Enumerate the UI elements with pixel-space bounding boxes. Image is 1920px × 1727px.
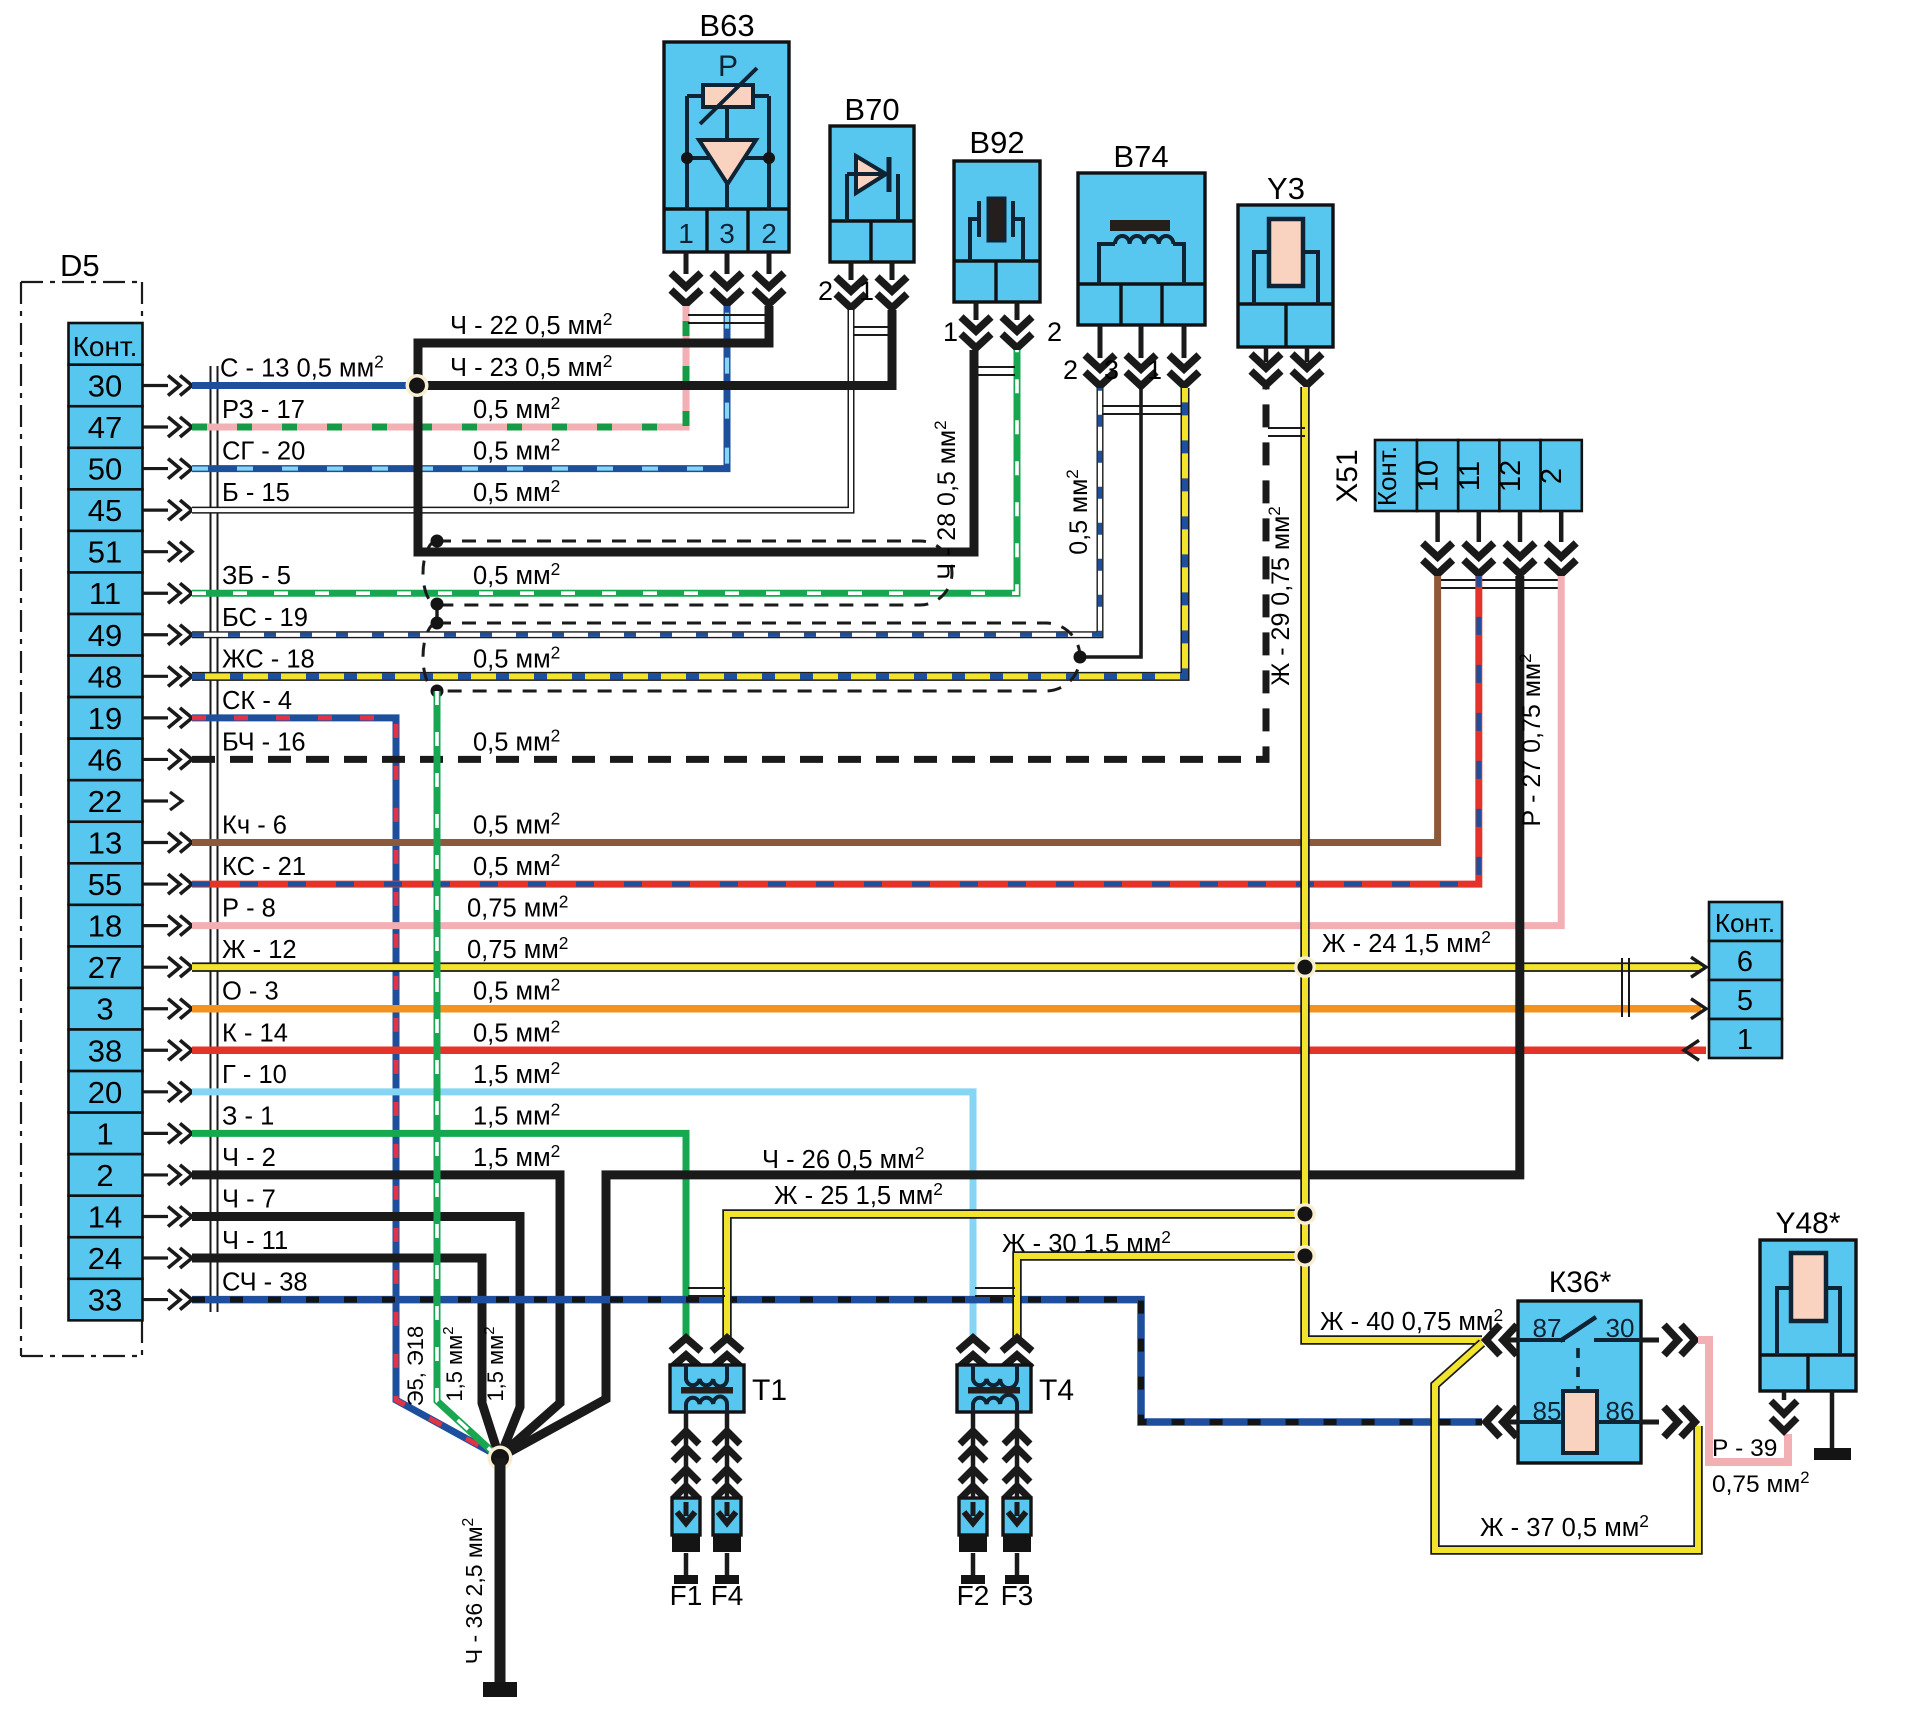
svg-text:5: 5 [1737, 985, 1753, 1017]
relay K36 box [1518, 1301, 1641, 1463]
svg-text:38: 38 [88, 1033, 122, 1068]
svg-text:P: P [718, 50, 738, 83]
svg-text:0,5 мм2: 0,5 мм2 [473, 975, 560, 1006]
spark plug F3 [1015, 1412, 1020, 1498]
svg-text:3: 3 [1104, 355, 1119, 385]
svg-text:Ж - 25 1,5 мм2: Ж - 25 1,5 мм2 [774, 1179, 943, 1210]
svg-text:СЧ - 38: СЧ - 38 [222, 1269, 308, 1297]
svg-text:Ч - 7: Ч - 7 [222, 1185, 276, 1213]
svg-text:Г - 10: Г - 10 [222, 1061, 287, 1089]
svg-text:50: 50 [88, 452, 122, 487]
B63 pin 3 terminal arrow [725, 252, 730, 274]
D5 pin 1 arrow [143, 1132, 168, 1135]
B92 pin 2 terminal arrow [1015, 302, 1020, 320]
connector D5 contact table [69, 323, 143, 1320]
label Ч-28 vertical [931, 420, 961, 579]
svg-text:55: 55 [88, 867, 122, 902]
D5 pin 46 arrow [143, 758, 168, 761]
svg-text:F3: F3 [1001, 1580, 1034, 1611]
crossing tick below B63 [688, 314, 766, 316]
B92 internal symbol: piezo element [988, 198, 1005, 241]
spark plug F4 [725, 1412, 730, 1498]
D5 pin 13 arrow [143, 841, 168, 844]
svg-text:B92: B92 [969, 125, 1024, 160]
svg-text:1: 1 [859, 276, 874, 306]
svg-text:0,5 мм2: 0,5 мм2 [473, 559, 560, 590]
valve Y48 box [1760, 1240, 1856, 1391]
svg-text:0,75 мм2: 0,75 мм2 [467, 892, 568, 923]
svg-text:0,5 мм2: 0,5 мм2 [473, 1016, 560, 1047]
sensor B63 box [664, 42, 789, 252]
junction node С-13/Ч-23/Ч-22 [406, 374, 429, 397]
wire СЧ-38 D5 pin 33 to relay K36 pin 85 [192, 1300, 1482, 1422]
svg-text:B74: B74 [1113, 139, 1168, 174]
wire СК-4 D5 pin 19 down to ground node [192, 718, 498, 1456]
svg-text:49: 49 [88, 618, 122, 653]
svg-text:Ч - 26 0,5 мм2: Ч - 26 0,5 мм2 [762, 1143, 924, 1174]
svg-text:45: 45 [88, 493, 122, 528]
svg-text:Б - 15: Б - 15 [222, 479, 290, 507]
T4 input arrows [958, 1338, 988, 1368]
funnel labels [403, 1326, 428, 1407]
svg-text:D5: D5 [60, 248, 100, 283]
svg-text:0,5 мм2: 0,5 мм2 [473, 393, 560, 424]
D5 pin 14 arrow [143, 1215, 168, 1218]
svg-text:СГ - 20: СГ - 20 [222, 438, 305, 466]
svg-text:0,5 мм2: 0,5 мм2 [473, 725, 560, 756]
svg-text:1: 1 [96, 1116, 113, 1151]
wire Ж-29 Y3 pin 2 down / Ж-40 to relay K36 pin 87 [1305, 387, 1482, 1340]
Y48 internal symbol: solenoid with core [1777, 1288, 1791, 1355]
svg-text:1,5 мм2: 1,5 мм2 [473, 1141, 560, 1172]
wire СГ-20 D5 pin 50 to B63 pin 3 [192, 306, 727, 469]
shield of wire ЗБ-5 (dashed loop) [437, 541, 952, 605]
wire Ч-36 to ground [495, 1458, 506, 1682]
svg-text:6: 6 [1737, 946, 1753, 978]
svg-text:Ж - 29 0,75 мм2: Ж - 29 0,75 мм2 [1265, 506, 1295, 686]
crossing tick above T1 [688, 1287, 725, 1289]
svg-text:Конт.: Конт. [1715, 908, 1775, 938]
wire БЧ-16 D5 pin 46 to Y3 pin 1 [192, 387, 1266, 759]
ECU connector D5 dash-dot outline [21, 281, 143, 283]
svg-text:2: 2 [761, 218, 777, 249]
svg-text:0,5 мм2: 0,5 мм2 [473, 435, 560, 466]
svg-text:Ж - 24 1,5 мм2: Ж - 24 1,5 мм2 [1322, 927, 1491, 958]
K36 switch contact [1518, 1338, 1565, 1342]
D5 pin 51 arrow [143, 550, 168, 553]
svg-text:1: 1 [1147, 355, 1162, 385]
svg-text:48: 48 [88, 659, 122, 694]
connector X51 table [1375, 440, 1582, 511]
crossing tick below B70 [853, 326, 890, 328]
svg-text:Ч - 23 0,5 мм2: Ч - 23 0,5 мм2 [450, 351, 612, 382]
svg-text:Ч - 22 0,5 мм2: Ч - 22 0,5 мм2 [450, 309, 612, 340]
D5 pin 2 arrow [143, 1173, 168, 1176]
svg-text:Ж - 37 0,5 мм2: Ж - 37 0,5 мм2 [1480, 1511, 1649, 1542]
B70 pin 2 terminal arrow [849, 262, 854, 280]
svg-text:2: 2 [1063, 355, 1078, 385]
svg-text:0,5 мм2: 0,5 мм2 [473, 850, 560, 881]
shield link node [435, 604, 438, 623]
svg-text:T1: T1 [752, 1374, 787, 1407]
svg-text:1,5 мм2: 1,5 мм2 [473, 1099, 560, 1130]
svg-text:B70: B70 [844, 92, 899, 127]
wire B74 pin 3 to shield [1083, 388, 1141, 657]
svg-text:К36*: К36* [1549, 1266, 1612, 1299]
D5 pin 20 arrow [143, 1090, 168, 1093]
Y3 internal symbol: solenoid with core [1254, 252, 1269, 304]
svg-text:14: 14 [88, 1199, 122, 1234]
label Р-27 vertical [1516, 653, 1546, 826]
svg-text:12: 12 [1495, 460, 1527, 492]
wire Ж-37 relay K36 pin 87 to pin 86 [1435, 1343, 1698, 1550]
Y48 pin 1 arrow [1782, 1391, 1787, 1400]
svg-text:БЧ - 16: БЧ - 16 [222, 728, 306, 756]
D5 pin 22 arrow [143, 799, 168, 802]
crossing tick below Y3 [1268, 427, 1305, 429]
wire Ж-25 T1 pin 2 to junction [727, 1214, 1305, 1337]
svg-text:27: 27 [88, 950, 122, 985]
svg-text:30: 30 [88, 368, 122, 403]
D5 pin 3 arrow [143, 1007, 168, 1010]
svg-text:К - 14: К - 14 [222, 1019, 288, 1047]
svg-text:Р - 8: Р - 8 [222, 895, 276, 923]
D5 pin 19 arrow [143, 716, 168, 719]
D5 pin 47 arrow [143, 425, 168, 428]
svg-text:2: 2 [96, 1158, 113, 1193]
B74 pin 1 terminal arrow [1182, 325, 1187, 358]
svg-text:1,5 мм2: 1,5 мм2 [473, 1058, 560, 1089]
svg-text:F1: F1 [670, 1580, 703, 1611]
svg-text:0,75 мм2: 0,75 мм2 [1712, 1468, 1809, 1498]
svg-text:0,5 мм2: 0,5 мм2 [473, 642, 560, 673]
svg-text:X51: X51 [1331, 449, 1364, 502]
ignition coil T4 [957, 1365, 1031, 1412]
svg-text:Ж - 12: Ж - 12 [222, 936, 297, 964]
D5 pin 11 arrow [143, 592, 168, 595]
svg-text:Ч - 28 0,5 мм2: Ч - 28 0,5 мм2 [931, 420, 961, 579]
B63 pin 1 terminal arrow [684, 252, 689, 274]
wire Р-8 / Р-27 D5 pin 18 to X51 pin 2 [192, 576, 1561, 926]
svg-text:Кч - 6: Кч - 6 [222, 812, 287, 840]
Y3 pin terminal arrows [1264, 347, 1269, 362]
K36 pin 30 arrow [1641, 1338, 1659, 1343]
D5 pin 38 arrow [143, 1049, 168, 1052]
D5 pin 48 arrow [143, 675, 168, 678]
svg-text:10: 10 [1413, 460, 1445, 492]
B63 pin 2 terminal arrow [767, 252, 772, 274]
svg-text:ЖС - 18: ЖС - 18 [222, 645, 315, 673]
label Ч-36 vertical [460, 1518, 487, 1664]
T1 input arrows [671, 1338, 701, 1368]
svg-text:11: 11 [89, 576, 121, 611]
svg-text:T4: T4 [1039, 1374, 1074, 1407]
K36 dashed actuator link [1576, 1348, 1580, 1391]
svg-text:3: 3 [96, 992, 113, 1027]
svg-text:2: 2 [1047, 317, 1062, 347]
svg-text:13: 13 [88, 826, 122, 861]
svg-text:Конт.: Конт. [73, 331, 138, 362]
svg-text:Э5, Э18: Э5, Э18 [403, 1326, 428, 1407]
D5 pin 50 arrow [143, 467, 168, 470]
wire Ч-26 ground node to X51 pin 12 [504, 576, 1520, 1455]
svg-text:Ч - 2: Ч - 2 [222, 1144, 276, 1172]
wire Ч-7 D5 pin 14 to ground node [192, 1216, 520, 1457]
svg-text:18: 18 [88, 909, 122, 944]
ground node star point [488, 1446, 513, 1471]
wire С-13 from D5 pin 30 [192, 382, 410, 389]
wire Б-15 D5 pin 45 to B70 pin 2 [192, 310, 851, 510]
svg-text:0,5 мм2: 0,5 мм2 [1063, 469, 1093, 555]
wire Ж-12 / Ж-24 D5 pin 27 to right connector pin 6 [192, 962, 1701, 972]
wire З-1 D5 pin 1 to T1 pin 1 [192, 1133, 686, 1337]
svg-text:Р - 39: Р - 39 [1712, 1435, 1777, 1462]
crossing tick below X51 [1439, 579, 1559, 581]
svg-text:Ч - 36 2,5 мм2: Ч - 36 2,5 мм2 [460, 1518, 487, 1664]
wire БС-19 D5 pin 49 to B74 pin 2 [192, 388, 1100, 635]
svg-text:B63: B63 [699, 8, 754, 43]
D5 pin 30 arrow [143, 384, 168, 387]
crossing tick above T4 [975, 1287, 1015, 1289]
B92 pin 1 terminal arrow [974, 302, 979, 320]
svg-text:Y48*: Y48* [1775, 1207, 1840, 1240]
B70 pin 1 terminal arrow [890, 262, 895, 280]
wire Ж-30 T4 pin 2 to junction [1017, 1256, 1305, 1337]
svg-text:1,5 мм2: 1,5 мм2 [440, 1326, 467, 1401]
D5 pin 24 arrow [143, 1256, 168, 1259]
B70 internal symbol: diode [856, 156, 886, 193]
K36 pin 85 arrow [1500, 1420, 1518, 1425]
crossing tick below B74 [1102, 405, 1182, 407]
D5 pin 55 arrow [143, 882, 168, 885]
svg-text:1: 1 [1737, 1024, 1753, 1056]
wire КС-21 D5 pin 55 to X51 pin 11 [192, 576, 1479, 884]
svg-text:1: 1 [678, 218, 694, 249]
svg-text:0,5 мм2: 0,5 мм2 [473, 476, 560, 507]
svg-text:СК - 4: СК - 4 [222, 687, 292, 715]
X51 pin stubs and arrows [1435, 511, 1440, 542]
svg-text:19: 19 [88, 701, 122, 736]
spark plug F2 [971, 1412, 976, 1498]
valve Y3 box [1238, 205, 1333, 347]
svg-text:З - 1: З - 1 [222, 1102, 274, 1130]
B74 internal symbol: inductive sensor with core [1110, 220, 1170, 231]
wire ЖС-18 D5 pin 48 to B74 pin 1 [192, 388, 1185, 676]
wire Ч-23 junction to B70 pin 1 [424, 310, 892, 385]
shield drain wire Э5, Э18 to ground node [437, 691, 497, 1456]
shield of wires БС-19 and ЖС-18 (dashed loop) [437, 623, 1080, 691]
D5 pin 33 arrow [143, 1298, 168, 1301]
K36 pin 86 arrow [1641, 1420, 1659, 1425]
sensor B74 box [1078, 173, 1205, 325]
wire Г-10 D5 pin 20 to T4 pin 1 [192, 1092, 973, 1337]
svg-text:46: 46 [88, 742, 122, 777]
harness crossing tick near D5 [210, 366, 212, 1312]
D5 pin 27 arrow [143, 966, 168, 969]
svg-text:3: 3 [719, 218, 735, 249]
crossing tick below B92 [978, 366, 1015, 368]
wire Р-39 relay K36 pin 30 to Y48 [1698, 1340, 1788, 1462]
K36 coil [1563, 1391, 1597, 1453]
svg-text:2: 2 [818, 276, 833, 306]
label 0,5 mm2 vertical near B74 [1063, 469, 1093, 555]
svg-text:0,75 мм2: 0,75 мм2 [467, 933, 568, 964]
svg-text:С - 13 0,5 мм2: С - 13 0,5 мм2 [220, 351, 384, 382]
svg-text:20: 20 [88, 1075, 122, 1110]
svg-text:2: 2 [1536, 468, 1568, 484]
D5 pin 45 arrow [143, 509, 168, 512]
svg-text:РЗ - 17: РЗ - 17 [222, 396, 305, 424]
svg-text:О - 3: О - 3 [222, 978, 279, 1006]
wire Ч-11 D5 pin 24 to ground node [192, 1258, 499, 1456]
svg-text:Y3: Y3 [1267, 171, 1305, 206]
junction dots on yellow riser [1294, 956, 1316, 978]
svg-text:БС - 19: БС - 19 [222, 604, 308, 632]
wire О-3 D5 pin 3 to right connector pin 5 [192, 1005, 1701, 1013]
wire Кч-6 D5 pin 13 to X51 pin 10 [192, 576, 1438, 843]
svg-text:Конт.: Конт. [1372, 446, 1402, 506]
ignition coil T1 [670, 1365, 744, 1412]
wire Ч-2 D5 pin 2 to ground node [192, 1175, 560, 1456]
svg-text:1: 1 [943, 317, 958, 347]
svg-text:Ч - 11: Ч - 11 [222, 1227, 288, 1255]
wire Ч-22 B63 pin 2 to bus [418, 306, 974, 552]
spark plug F1 [684, 1412, 689, 1498]
svg-text:ЗБ - 5: ЗБ - 5 [222, 562, 291, 590]
svg-text:Ж - 40 0,75 мм2: Ж - 40 0,75 мм2 [1320, 1305, 1503, 1336]
D5 pin 18 arrow [143, 924, 168, 927]
svg-text:33: 33 [88, 1283, 122, 1318]
B74 pin 2 terminal arrow [1098, 325, 1103, 358]
wire РЗ-17 D5 pin 47 to B63 pin 1 [192, 306, 686, 427]
svg-text:51: 51 [88, 535, 122, 570]
Y48 pin 2 to ground [1830, 1391, 1835, 1448]
svg-text:24: 24 [88, 1241, 122, 1276]
B74 pin 3 terminal arrow [1139, 325, 1144, 358]
svg-text:47: 47 [88, 410, 122, 445]
svg-text:F2: F2 [957, 1580, 990, 1611]
right connector table [1709, 902, 1782, 1058]
svg-text:1,5 мм2: 1,5 мм2 [481, 1326, 508, 1401]
D5 pin 49 arrow [143, 633, 168, 636]
X51 cell labels [1372, 446, 1402, 506]
svg-text:11: 11 [1454, 461, 1486, 491]
svg-text:Р - 27 0,75 мм2: Р - 27 0,75 мм2 [1516, 653, 1546, 826]
wire ЗБ-5 D5 pin 11 to B92 pin 2 [192, 350, 1017, 593]
crossing tick right connector [1621, 958, 1623, 1017]
svg-text:22: 22 [88, 784, 122, 819]
label X51 [1331, 449, 1364, 502]
svg-text:КС - 21: КС - 21 [222, 853, 306, 881]
sensor B92 box [954, 161, 1040, 302]
svg-text:F4: F4 [711, 1580, 744, 1611]
label Ж-29 vertical [1265, 506, 1295, 686]
sensor B70 box [830, 126, 914, 262]
wire К-14 D5 pin 38 to right connector pin 1 [192, 1047, 1706, 1055]
K36 pin 87 arrow [1500, 1338, 1518, 1343]
svg-text:0,5 мм2: 0,5 мм2 [473, 809, 560, 840]
ground symbol [483, 1682, 517, 1697]
